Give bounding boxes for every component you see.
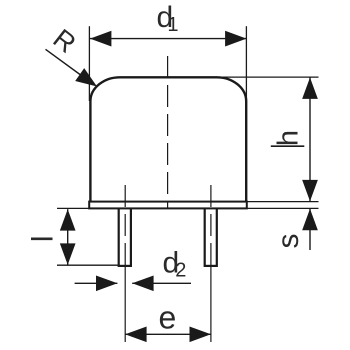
svg-text:2: 2 — [175, 260, 186, 282]
svg-text:e: e — [159, 300, 177, 336]
svg-text:1: 1 — [167, 14, 178, 36]
svg-text:s: s — [272, 234, 305, 249]
svg-text:l: l — [27, 235, 60, 242]
svg-text:h: h — [273, 130, 305, 146]
